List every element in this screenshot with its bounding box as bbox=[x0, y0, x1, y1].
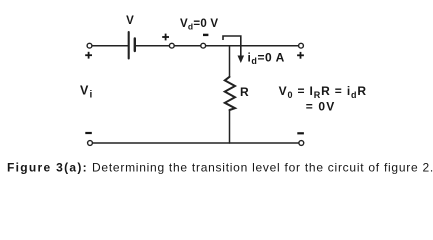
wire battery to diode + terminal bbox=[136, 45, 169, 47]
wire resistor bottom to bottom rail bbox=[229, 110, 231, 143]
resistor R zigzag bbox=[225, 77, 235, 110]
current arrow i_d head bbox=[238, 56, 245, 64]
node top-left terminal bbox=[87, 43, 92, 48]
minus sign input bottom bbox=[85, 132, 92, 134]
battery V short plate bbox=[134, 39, 136, 52]
node bottom-left terminal bbox=[88, 141, 93, 146]
node diode anode bbox=[169, 43, 174, 48]
current arrow i_d elbow bbox=[223, 36, 241, 59]
plus sign input top bbox=[85, 54, 92, 56]
svg-text:= 0V: = 0V bbox=[306, 99, 336, 113]
svg-text:V: V bbox=[126, 15, 134, 27]
wire diode - terminal to output + terminal bbox=[206, 45, 299, 47]
wire top-left terminal to battery bbox=[92, 45, 128, 47]
plus sign output top bbox=[297, 54, 304, 56]
svg-text:R: R bbox=[240, 85, 249, 99]
minus sign diode cathode bbox=[203, 34, 208, 36]
node diode cathode bbox=[201, 43, 206, 48]
minus sign output bottom bbox=[297, 132, 304, 134]
wire resistor branch from top node bbox=[229, 46, 231, 77]
battery V long plate bbox=[128, 32, 130, 59]
svg-text:Vd=0 V: Vd=0 V bbox=[180, 18, 218, 32]
wire between diode terminals bbox=[174, 45, 200, 47]
node bottom-right terminal bbox=[299, 141, 304, 146]
node top-right output terminal bbox=[299, 43, 304, 48]
svg-text:Figure 3(a): Determining the t: Figure 3(a): Determining the transition … bbox=[7, 161, 433, 175]
wire bottom rail bbox=[93, 142, 299, 144]
plus sign diode anode bbox=[162, 36, 169, 38]
